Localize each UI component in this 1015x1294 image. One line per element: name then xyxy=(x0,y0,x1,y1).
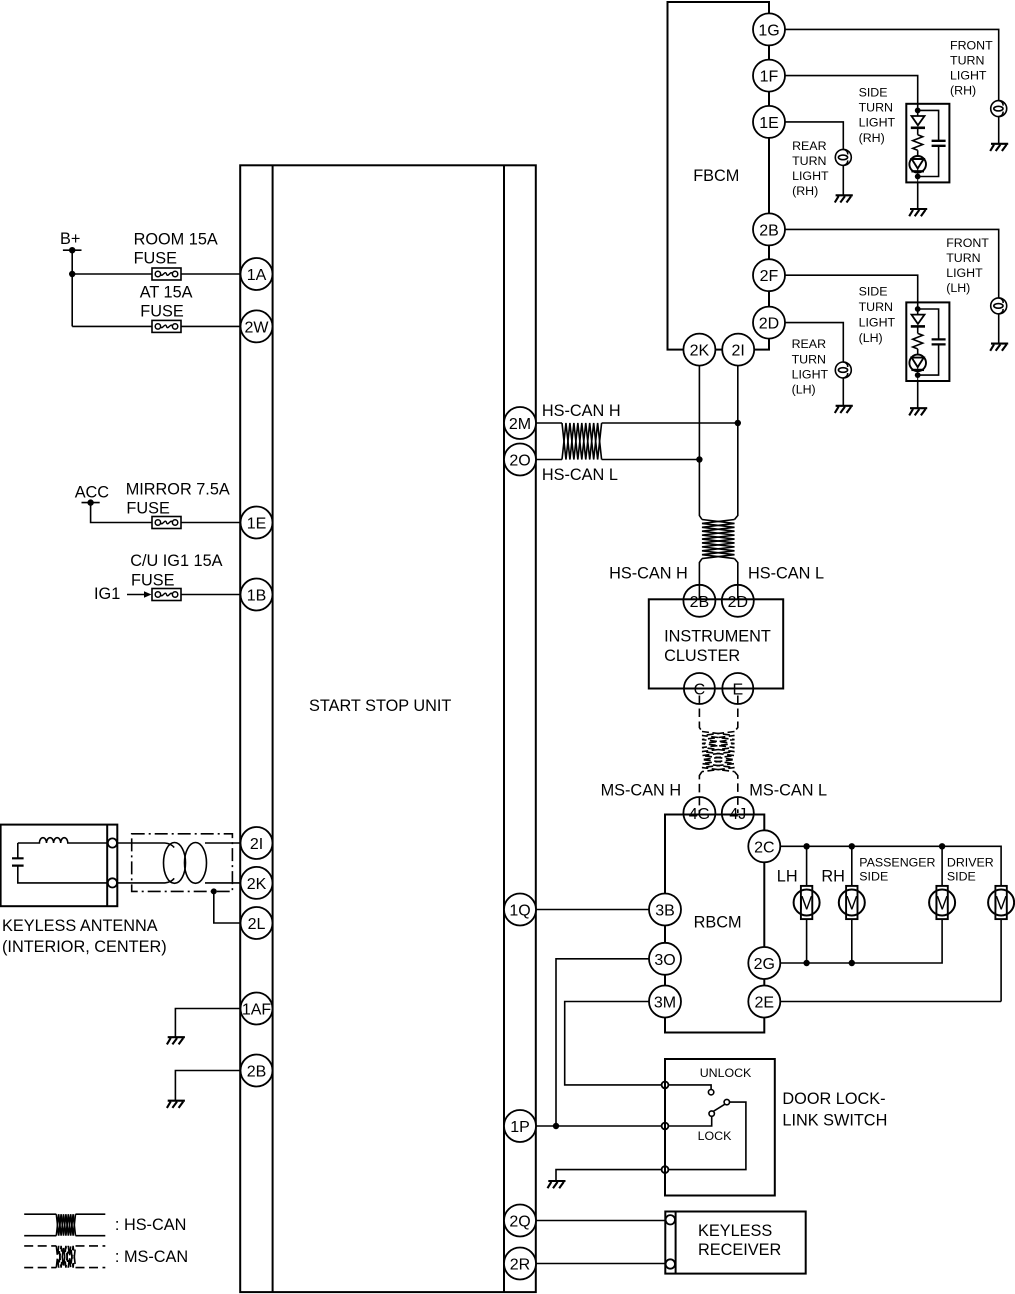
wire ACC to fuse MIRROR xyxy=(91,503,152,523)
wire driver motor to 2E xyxy=(1000,919,1002,1002)
svg-text:4G: 4G xyxy=(689,806,710,823)
terminal unlock xyxy=(662,1082,669,1089)
ground rear LH xyxy=(835,406,853,413)
pin 1P xyxy=(504,1110,536,1142)
wire 1F to side turn light RH xyxy=(785,76,918,111)
wire HS-CAN H to node xyxy=(602,422,738,424)
wire B+ vertical xyxy=(71,250,73,326)
svg-text:2F: 2F xyxy=(760,268,779,285)
pin 1F xyxy=(753,60,785,92)
pin 1E unit xyxy=(241,507,273,539)
pin 1Q xyxy=(504,894,536,926)
wire RH motor to 2G bus xyxy=(851,919,853,964)
twisted pair loops xyxy=(164,843,207,884)
svg-text:2I: 2I xyxy=(250,836,263,853)
svg-text:2O: 2O xyxy=(509,453,530,470)
svg-text:RH: RH xyxy=(821,867,845,885)
wire 1Q to 3B xyxy=(536,909,650,911)
pin 3M xyxy=(649,986,681,1018)
svg-text:(RH): (RH) xyxy=(859,131,885,145)
wire 1E to rear turn light RH xyxy=(785,122,844,149)
instrument cluster box xyxy=(649,599,783,688)
svg-text:KEYLESS: KEYLESS xyxy=(698,1222,772,1240)
wire side light RH to ground xyxy=(917,183,919,210)
wire LH motor drop xyxy=(806,846,808,886)
svg-text:DOOR LOCK-: DOOR LOCK- xyxy=(782,1090,885,1108)
svg-text:1Q: 1Q xyxy=(509,903,530,920)
svg-text:2B: 2B xyxy=(690,594,710,611)
svg-text:HS-CAN L: HS-CAN L xyxy=(748,565,824,583)
wire 2Q to receiver xyxy=(536,1220,668,1222)
wire 1P to switch xyxy=(536,1125,663,1127)
ground rear RH xyxy=(835,195,853,202)
wire to fuse AT xyxy=(72,325,152,327)
svg-text:LIGHT: LIGHT xyxy=(859,315,896,329)
bulb rear turn light RH xyxy=(835,149,851,165)
svg-text:1E: 1E xyxy=(759,115,779,132)
pin 1AF xyxy=(241,993,273,1025)
wire fuse ROOM to 1A xyxy=(181,273,241,275)
node bus LH xyxy=(803,843,809,849)
wire 3M to unlock contact xyxy=(565,1002,662,1085)
svg-text:1B: 1B xyxy=(247,588,267,605)
wire 2F to side turn light LH xyxy=(785,275,918,309)
wire 2D to rear turn light LH xyxy=(785,323,844,362)
svg-text:START STOP UNIT: START STOP UNIT xyxy=(309,697,451,715)
svg-text:LIGHT: LIGHT xyxy=(859,116,896,130)
node 2G bus LH xyxy=(803,960,809,966)
svg-text:AT 15A: AT 15A xyxy=(140,283,193,301)
svg-text:LH: LH xyxy=(777,867,798,885)
svg-text:REAR: REAR xyxy=(792,139,826,153)
svg-text:LIGHT: LIGHT xyxy=(792,367,829,381)
terminal common xyxy=(662,1123,669,1130)
svg-text:1E: 1E xyxy=(247,516,267,533)
ground G2 xyxy=(167,1101,185,1108)
svg-text:1AF: 1AF xyxy=(242,1002,272,1019)
svg-text:MS-CAN L: MS-CAN L xyxy=(749,782,827,800)
side turn light RH assembly xyxy=(906,104,949,183)
pin 1B xyxy=(241,579,273,611)
pin 2W xyxy=(241,310,273,342)
svg-text:4J: 4J xyxy=(729,806,746,823)
svg-text:MS-CAN H: MS-CAN H xyxy=(601,782,682,800)
node 1P junction xyxy=(553,1123,559,1129)
wire 2E bus xyxy=(780,1001,1001,1003)
fuse C/U IG1 15A xyxy=(130,552,222,601)
svg-text:B+: B+ xyxy=(60,230,80,248)
pin 2D cluster xyxy=(722,585,754,617)
svg-text:3B: 3B xyxy=(655,903,675,920)
side turn light LH assembly xyxy=(906,302,949,381)
RBCM box xyxy=(665,815,764,1033)
door lock-link switch box xyxy=(665,1059,775,1196)
svg-text:FUSE: FUSE xyxy=(131,571,175,589)
svg-text:HS-CAN L: HS-CAN L xyxy=(542,466,618,484)
wire twist to 2I xyxy=(205,842,241,844)
svg-text:ROOM 15A: ROOM 15A xyxy=(134,230,218,248)
pin E xyxy=(722,673,753,704)
wire E to MS twist dashed xyxy=(735,696,738,732)
keyless receiver box xyxy=(665,1212,805,1274)
node bus RH xyxy=(849,843,855,849)
wire rear bulb LH to ground xyxy=(842,378,844,406)
ground front LH xyxy=(990,344,1008,351)
svg-text:HS-CAN H: HS-CAN H xyxy=(542,402,621,420)
node HS-CAN L xyxy=(696,456,702,462)
receiver terminal top xyxy=(666,1215,675,1224)
wire twist to 2D cluster xyxy=(735,559,738,600)
svg-text:(INTERIOR, CENTER): (INTERIOR, CENTER) xyxy=(2,938,167,956)
svg-text:1A: 1A xyxy=(247,267,267,284)
antenna terminal bottom xyxy=(108,878,117,887)
ground G1 xyxy=(167,1037,185,1044)
motor RH xyxy=(839,886,865,919)
wire RH motor drop xyxy=(851,846,853,886)
wire side light LH to ground xyxy=(917,381,919,408)
svg-text:3O: 3O xyxy=(654,952,675,969)
svg-text:3M: 3M xyxy=(654,995,676,1012)
svg-text:2L: 2L xyxy=(248,916,266,933)
svg-text:TURN: TURN xyxy=(859,101,893,115)
node HS-CAN H xyxy=(735,420,741,426)
ground side RH xyxy=(909,209,927,216)
FBCM box xyxy=(668,2,770,350)
wire antenna bottom to twist xyxy=(117,882,165,884)
wire 2I down to HS-CAN H junction xyxy=(735,365,738,519)
motor driver xyxy=(988,886,1014,919)
wire MS twist to 4G dashed xyxy=(699,772,702,813)
wire fuse AT to 2W xyxy=(181,325,241,327)
motor LH xyxy=(794,886,820,919)
switch unlock contact xyxy=(668,1085,714,1095)
wire 3O to 1P junction xyxy=(556,959,650,1126)
svg-text:: HS-CAN: : HS-CAN xyxy=(115,1216,186,1234)
svg-text:2D: 2D xyxy=(759,316,779,333)
svg-text:TURN: TURN xyxy=(792,352,826,366)
svg-text:UNLOCK: UNLOCK xyxy=(700,1066,752,1080)
legend MS-CAN sample xyxy=(24,1246,105,1268)
wire 2M HS-CAN H xyxy=(536,422,563,424)
svg-text:2I: 2I xyxy=(732,343,745,360)
wire twist to 2K xyxy=(205,882,241,884)
svg-text:2D: 2D xyxy=(728,594,748,611)
pin 2I unit xyxy=(241,827,273,859)
svg-text:2K: 2K xyxy=(247,876,267,893)
svg-text:(LH): (LH) xyxy=(946,281,970,295)
svg-text:HS-CAN H: HS-CAN H xyxy=(609,565,688,583)
wire bulb to ground xyxy=(998,117,1000,144)
svg-text:LIGHT: LIGHT xyxy=(946,266,983,280)
svg-text:1F: 1F xyxy=(760,69,779,86)
bulb front turn light LH xyxy=(991,298,1007,314)
pin 2Q xyxy=(504,1205,536,1237)
svg-text:FUSE: FUSE xyxy=(126,500,170,518)
wire fuse IG1 to 1B xyxy=(181,594,241,596)
wire 2O HS-CAN L xyxy=(536,459,563,461)
svg-text:(RH): (RH) xyxy=(950,83,976,97)
svg-text:SIDE: SIDE xyxy=(859,870,888,884)
svg-text:REAR: REAR xyxy=(792,337,826,351)
svg-text:FBCM: FBCM xyxy=(693,167,739,185)
pin 2G xyxy=(748,947,780,979)
pin 2I FBCM xyxy=(722,334,754,366)
B+ terminal xyxy=(60,230,82,253)
pin 2K unit xyxy=(241,867,273,899)
pin 2E xyxy=(748,986,780,1018)
wire to fuse ROOM xyxy=(72,273,152,275)
shield dash-dot box xyxy=(132,834,233,892)
svg-text:INSTRUMENT: INSTRUMENT xyxy=(664,627,771,645)
pin 1G xyxy=(753,13,785,45)
svg-text:FUSE: FUSE xyxy=(140,303,184,321)
svg-text:2M: 2M xyxy=(509,416,531,433)
svg-text:2B: 2B xyxy=(247,1064,267,1081)
svg-text:FRONT: FRONT xyxy=(946,236,989,250)
node 2G bus RH xyxy=(849,960,855,966)
svg-text:CLUSTER: CLUSTER xyxy=(664,647,740,665)
pin 2M xyxy=(504,407,536,439)
pin 2B FBCM xyxy=(753,213,785,245)
svg-text:KEYLESS ANTENNA: KEYLESS ANTENNA xyxy=(2,917,158,935)
pin 2C xyxy=(748,830,780,862)
pin 1A xyxy=(241,258,273,290)
wire 2G bus xyxy=(780,919,942,964)
legend HS-CAN sample xyxy=(24,1214,105,1236)
svg-text:SIDE: SIDE xyxy=(947,870,976,884)
svg-text:C/U IG1 15A: C/U IG1 15A xyxy=(130,552,222,570)
motor passenger xyxy=(929,886,955,919)
svg-text:TURN: TURN xyxy=(946,251,980,265)
svg-text:DRIVER: DRIVER xyxy=(947,856,994,870)
wire rear bulb RH to ground xyxy=(842,165,844,195)
fuse MIRROR 7.5A xyxy=(126,480,230,528)
svg-text:2C: 2C xyxy=(754,839,774,856)
receiver terminal bottom xyxy=(666,1259,675,1268)
svg-text:TURN: TURN xyxy=(859,300,893,314)
svg-text:2G: 2G xyxy=(754,956,775,973)
keyless antenna box xyxy=(1,825,167,956)
pin C xyxy=(684,673,715,704)
pin 2K FBCM xyxy=(683,334,715,366)
wire bulb LH to ground xyxy=(998,314,1000,344)
pin 2B cluster xyxy=(683,585,715,617)
wire C to MS twist dashed xyxy=(699,696,702,732)
svg-text:FRONT: FRONT xyxy=(950,38,993,52)
svg-text:2W: 2W xyxy=(245,319,270,336)
svg-text:TURN: TURN xyxy=(792,154,826,168)
svg-text:2K: 2K xyxy=(690,343,710,360)
node shield junction xyxy=(211,888,217,894)
wire passenger motor drop xyxy=(941,846,943,886)
svg-text:(LH): (LH) xyxy=(792,383,816,397)
capacitor C1 xyxy=(12,843,108,883)
wire HS-CAN L to node xyxy=(602,459,700,461)
svg-text:2Q: 2Q xyxy=(509,1214,530,1231)
pin 2B unit xyxy=(241,1055,273,1087)
IG1 terminal xyxy=(94,585,152,603)
wire MS twist to 4J dashed xyxy=(735,772,738,813)
svg-text:2E: 2E xyxy=(755,995,775,1012)
wire shield to 2L xyxy=(214,891,241,923)
svg-text:LOCK: LOCK xyxy=(698,1129,732,1143)
svg-text:: MS-CAN: : MS-CAN xyxy=(115,1248,188,1266)
wire antenna top to twist xyxy=(117,842,165,844)
ACC terminal xyxy=(75,484,110,506)
svg-text:ACC: ACC xyxy=(75,484,110,502)
pin 4J xyxy=(722,797,754,829)
svg-text:IG1: IG1 xyxy=(94,585,120,603)
ground door switch xyxy=(548,1181,566,1188)
START STOP UNIT box U1 xyxy=(240,165,536,1292)
svg-text:RBCM: RBCM xyxy=(694,914,742,932)
inductor L1 xyxy=(18,838,108,843)
svg-text:FUSE: FUSE xyxy=(134,249,178,267)
svg-text:2B: 2B xyxy=(759,222,779,239)
svg-text:SIDE: SIDE xyxy=(859,85,888,99)
pin 4G xyxy=(683,797,715,829)
pin 2O xyxy=(504,444,536,476)
svg-text:PASSENGER: PASSENGER xyxy=(859,856,935,870)
switch common and blade xyxy=(668,1099,746,1169)
antenna terminal top xyxy=(108,838,117,847)
wire 2R to receiver xyxy=(536,1263,668,1265)
ground side LH xyxy=(909,408,927,415)
pin 3B xyxy=(649,894,681,926)
wire switch bottom to ground xyxy=(556,1170,662,1181)
svg-text:1P: 1P xyxy=(510,1119,530,1136)
wire 2K down to HS-CAN L junction xyxy=(699,365,702,519)
pin 2F xyxy=(753,259,785,291)
svg-text:LIGHT: LIGHT xyxy=(792,169,829,183)
twisted pair HS-CAN horizontal xyxy=(562,423,602,460)
fuse ROOM 15A xyxy=(134,230,218,280)
twisted pair MS-CAN dashed xyxy=(702,732,735,772)
wire 2B to front turn light LH xyxy=(785,229,999,298)
wire 1AF ground lead xyxy=(175,1009,241,1038)
wire LH motor to 2G bus xyxy=(806,919,808,964)
svg-text:2R: 2R xyxy=(510,1257,530,1274)
svg-text:(RH): (RH) xyxy=(792,184,818,198)
wire fuse MIRROR to 1E xyxy=(181,522,241,524)
wire 2B ground lead xyxy=(175,1071,241,1101)
pin 3O xyxy=(649,943,681,975)
svg-text:MIRROR 7.5A: MIRROR 7.5A xyxy=(126,480,230,498)
bulb rear turn light LH xyxy=(835,362,851,378)
pin 2R xyxy=(504,1248,536,1280)
fuse AT 15A xyxy=(140,283,193,332)
svg-text:SIDE: SIDE xyxy=(859,285,888,299)
svg-text:LIGHT: LIGHT xyxy=(950,68,987,82)
ground front RH xyxy=(990,144,1008,151)
svg-text:RECEIVER: RECEIVER xyxy=(698,1241,781,1259)
wire 2C motor bus xyxy=(780,846,1001,886)
svg-text:(LH): (LH) xyxy=(859,331,883,345)
node bus passenger xyxy=(939,843,945,849)
wire twist to 2B cluster xyxy=(699,559,702,600)
pin 2D xyxy=(753,307,785,339)
wire 1G to front turn light RH xyxy=(785,29,999,100)
node B+ junction xyxy=(69,271,75,277)
pin 1E FBCM xyxy=(753,106,785,138)
bulb front turn light RH xyxy=(991,101,1007,117)
svg-text:1G: 1G xyxy=(758,22,779,39)
pin 2L xyxy=(241,907,273,939)
svg-text:LINK SWITCH: LINK SWITCH xyxy=(782,1111,887,1129)
twisted pair HS-CAN vertical xyxy=(702,520,735,559)
svg-text:TURN: TURN xyxy=(950,53,984,67)
terminal lock side xyxy=(662,1166,669,1173)
